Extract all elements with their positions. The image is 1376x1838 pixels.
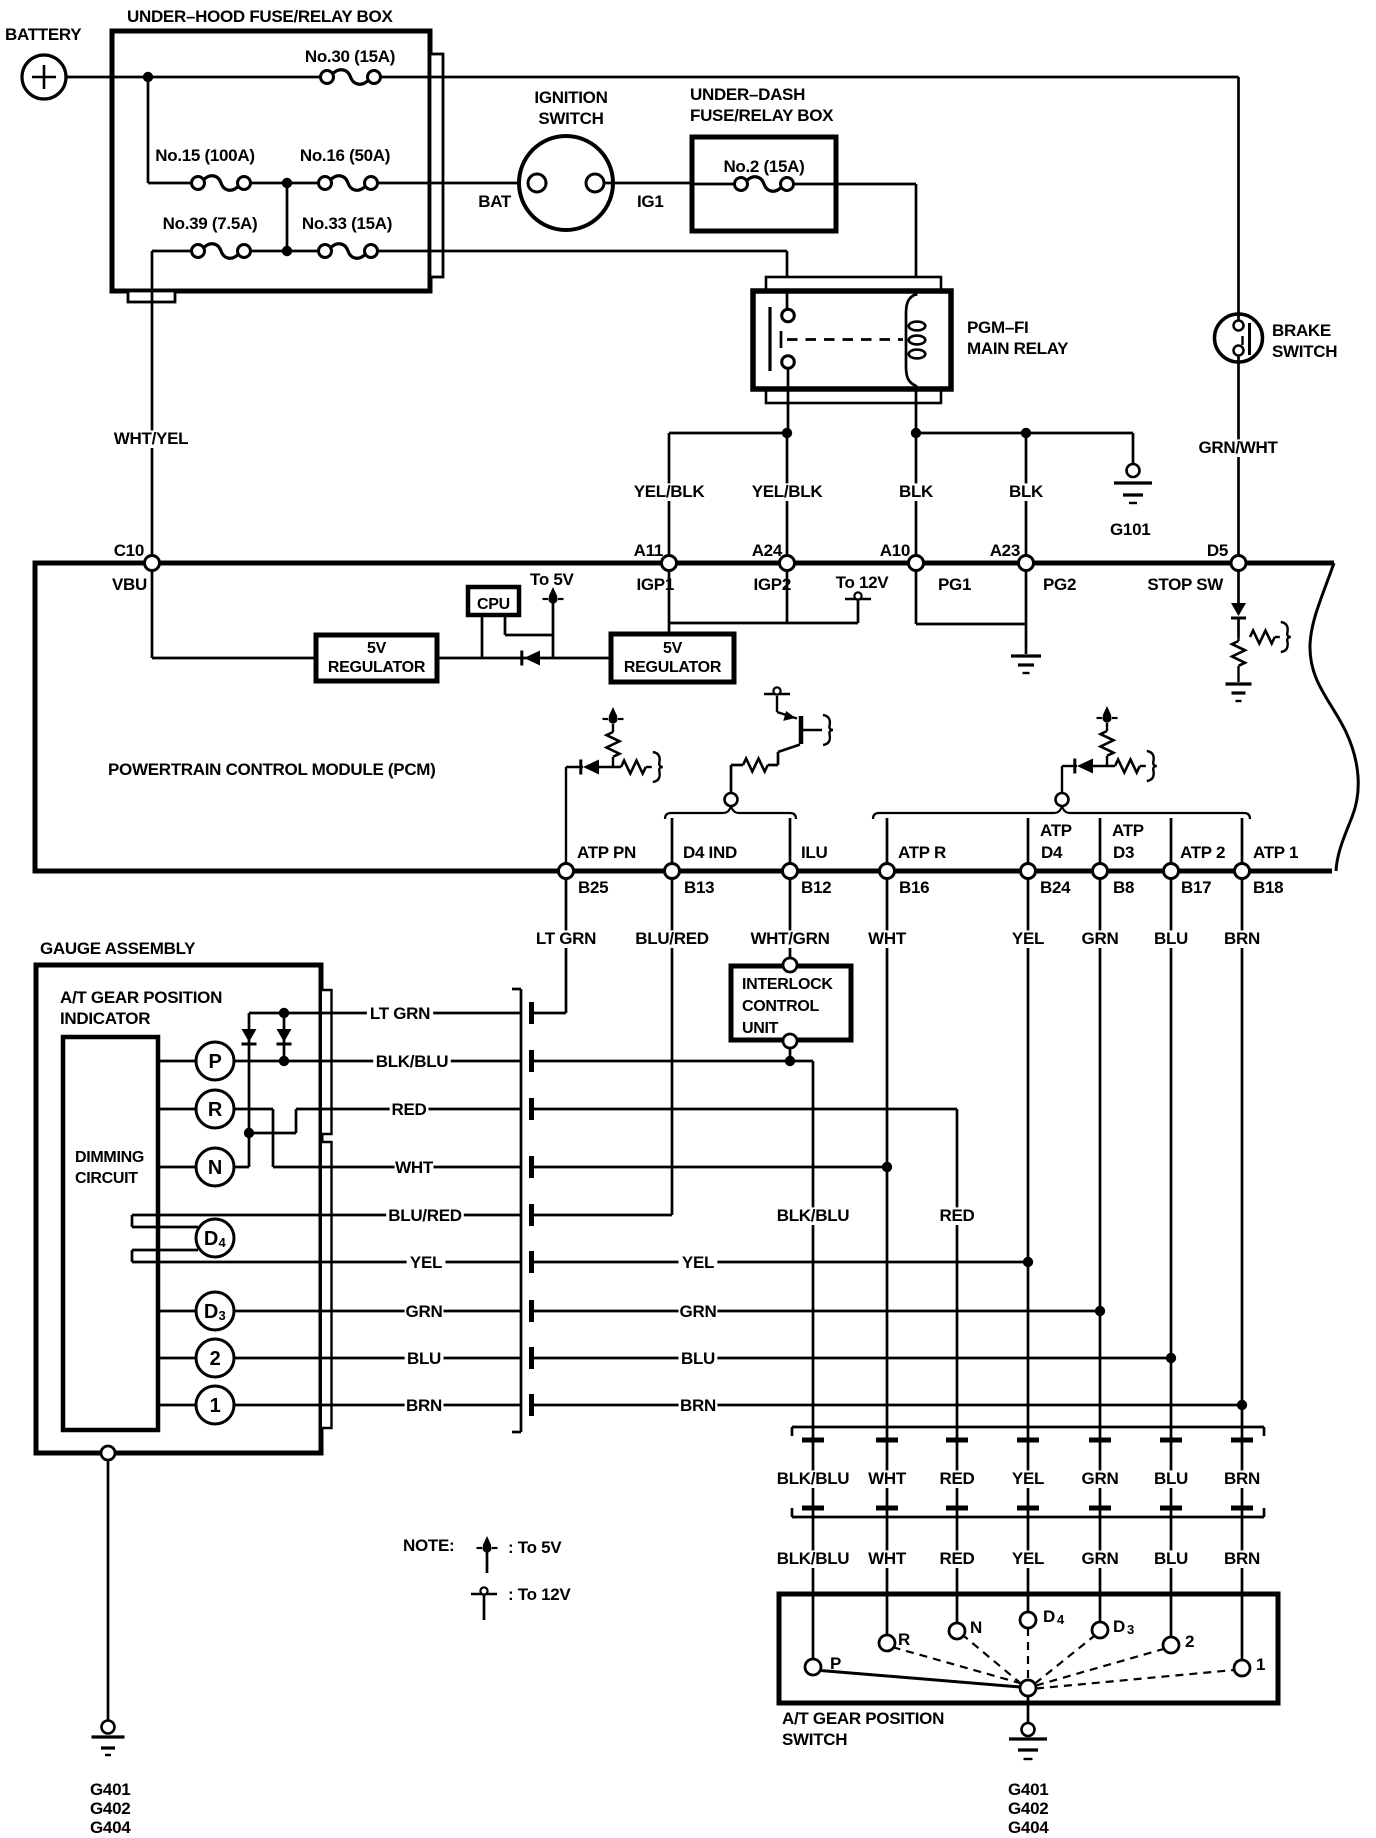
- svg-text:GRN/WHT: GRN/WHT: [1198, 438, 1278, 457]
- legend symbol To 12V: [471, 1593, 497, 1595]
- node No.33 feed junction: [282, 246, 292, 256]
- wire RED down to lower connector: [956, 1109, 959, 1623]
- svg-text:INDICATOR: INDICATOR: [60, 1009, 150, 1028]
- svg-text:5V: 5V: [663, 640, 683, 657]
- svg-text:REGULATOR: REGULATOR: [624, 659, 722, 676]
- wire BRN row (1): [158, 1404, 521, 1407]
- wire PG rail: [916, 623, 1026, 626]
- wire B24 stub to brace: [1027, 818, 1030, 864]
- indicator lamp P: [196, 1042, 234, 1080]
- svg-text:BLK: BLK: [899, 482, 934, 501]
- wire fuse box to ignition switch BAT: [443, 182, 528, 185]
- svg-text:G402: G402: [90, 1799, 130, 1818]
- svg-text:GRN: GRN: [1082, 929, 1119, 948]
- wire RED run: [534, 1108, 957, 1111]
- svg-text:1: 1: [1256, 1655, 1265, 1674]
- svg-text:WHT: WHT: [868, 929, 907, 948]
- svg-text:SWITCH: SWITCH: [538, 109, 603, 128]
- svg-text:BRN: BRN: [1224, 1469, 1260, 1488]
- inline connector C2 upper terminal: [876, 1438, 898, 1443]
- diode D2 (P column): [277, 1029, 292, 1042]
- node battery feed junction: [143, 72, 153, 82]
- pin A10: [909, 556, 924, 571]
- wire C10 to 5V regulator 1: [151, 570, 154, 658]
- inline connector C2 upper terminal: [1231, 1438, 1253, 1443]
- wire LT GRN B25 down: [565, 879, 568, 1014]
- node GRN to B8 junction: [1095, 1306, 1105, 1316]
- svg-text:IGNITION: IGNITION: [534, 88, 607, 107]
- svg-text:BLU/RED: BLU/RED: [388, 1206, 461, 1225]
- svg-text:2: 2: [210, 1348, 221, 1370]
- svg-text:BLK: BLK: [1009, 482, 1044, 501]
- resistor R5 to internal circuit: [1250, 631, 1275, 644]
- relay contact pin bottom: [782, 356, 795, 369]
- svg-text:DIMMING: DIMMING: [75, 1149, 144, 1166]
- wire PG2 drop inside PCM: [1025, 570, 1028, 624]
- svg-text:R: R: [208, 1099, 223, 1121]
- label wire color RED: [938, 1550, 977, 1568]
- svg-text:CIRCUIT: CIRCUIT: [75, 1170, 138, 1187]
- inline connector C1 terminal: [529, 1098, 534, 1120]
- svg-text:BLU: BLU: [1154, 1469, 1188, 1488]
- svg-text:G101: G101: [1110, 520, 1150, 539]
- svg-text:GRN: GRN: [1082, 1549, 1119, 1568]
- svg-text:BLU: BLU: [1154, 929, 1188, 948]
- fuse No.39 (7.5A): [192, 245, 205, 258]
- svg-text:G404: G404: [90, 1818, 131, 1837]
- dashed link common to 1: [1036, 1670, 1234, 1689]
- svg-text:BLK/BLU: BLK/BLU: [777, 1549, 850, 1568]
- relay moving contact blade: [780, 331, 783, 348]
- dashed link common to N: [965, 1637, 1022, 1685]
- node coil to A10 junction: [911, 428, 921, 438]
- ground G401 G402 G404 (gauge): [102, 1721, 115, 1734]
- svg-text:FUSE/RELAY BOX: FUSE/RELAY BOX: [690, 106, 834, 125]
- wire driver output to base resistor: [730, 765, 733, 793]
- svg-text:D: D: [1043, 1607, 1055, 1626]
- label wire color BRN: [1223, 1550, 1262, 1568]
- svg-text:ATP PN: ATP PN: [577, 843, 636, 862]
- wire GRN/WHT brake switch to D5: [1237, 362, 1240, 556]
- svg-text:: To 5V: : To 5V: [508, 1538, 562, 1557]
- label wire color BLU: [1152, 1550, 1191, 1568]
- svg-text:BLU: BLU: [1154, 1549, 1188, 1568]
- wire IG1 to under-dash fuse box: [604, 182, 692, 185]
- indicator lamp D4: [196, 1219, 234, 1257]
- wire brake switch internal stubs: [1237, 312, 1240, 322]
- wire No.33 row to PGM-FI relay: [443, 250, 787, 253]
- contact N: [949, 1623, 965, 1639]
- svg-text:VBU: VBU: [112, 575, 147, 594]
- node driver output circle: [725, 793, 738, 806]
- fuse No.2 (15A): [735, 178, 748, 191]
- ground G401 G402 G404 (switch): [1022, 1723, 1035, 1736]
- wire GRN through connector C2: [1081, 1470, 1120, 1488]
- label wire color WHT: [868, 1550, 907, 1568]
- fuse No.33 (15A): [319, 245, 332, 258]
- svg-text:No.16 (50A): No.16 (50A): [300, 146, 390, 165]
- wire fuse row No.30: [112, 76, 320, 79]
- label wire color BLK/BLU: [774, 1550, 852, 1568]
- pin B25: [559, 864, 574, 879]
- inline connector C1 bracket: [520, 989, 523, 1432]
- wire BLU B17 down: [1170, 879, 1173, 1638]
- svg-text:BRN: BRN: [406, 1396, 442, 1415]
- wire transistor collector: [802, 729, 822, 731]
- contact 2: [1163, 1637, 1179, 1653]
- wire YEL row (D4 bottom): [132, 1261, 521, 1264]
- node interlock to BLK/BLU junction: [785, 1056, 795, 1066]
- PCM top edge: [33, 561, 1335, 566]
- inline connector C2 upper terminal: [946, 1438, 968, 1443]
- PGM-FI main relay bottom tab: [766, 389, 941, 403]
- wire interlock bottom to BLK/BLU row: [789, 1048, 792, 1061]
- inline connector C2 lower terminal: [876, 1506, 898, 1511]
- svg-text:WHT: WHT: [868, 1549, 907, 1568]
- under-hood box bottom connector tab: [128, 291, 175, 302]
- pin B16: [880, 864, 895, 879]
- svg-text:3: 3: [1127, 1622, 1134, 1637]
- fuse No.15 (100A): [192, 177, 205, 190]
- pin B17: [1164, 864, 1179, 879]
- wire GRN run: [534, 1310, 1100, 1313]
- svg-text:CONTROL: CONTROL: [742, 998, 820, 1015]
- inline connector C2 upper terminal: [1017, 1438, 1039, 1443]
- svg-text:BRAKE: BRAKE: [1272, 321, 1331, 340]
- inline connector C2 upper terminal: [1160, 1438, 1182, 1443]
- svg-text:PG2: PG2: [1043, 575, 1076, 594]
- svg-text:LT GRN: LT GRN: [370, 1004, 430, 1023]
- pin B8: [1093, 864, 1108, 879]
- wire BLU row (2): [158, 1357, 521, 1360]
- svg-text:G401: G401: [1008, 1780, 1048, 1799]
- wire LT GRN connector to B25 column: [534, 1012, 566, 1015]
- svg-text:ILU: ILU: [801, 843, 828, 862]
- wire B8 stub to brace: [1099, 818, 1102, 864]
- svg-text:UNIT: UNIT: [742, 1020, 779, 1037]
- wire GRN row (D3): [158, 1310, 521, 1313]
- contact R: [879, 1635, 895, 1651]
- PCM bottom edge: [33, 869, 1333, 874]
- wire YEL B24 down: [1027, 879, 1030, 1613]
- wire relay contact bottom to junction A24 rail: [787, 368, 790, 433]
- brake switch blade: [1248, 323, 1251, 355]
- svg-text:BRN: BRN: [680, 1396, 716, 1415]
- wire BLK/BLU row (P): [158, 1060, 521, 1063]
- wire battery to under-hood fuse box: [66, 76, 112, 79]
- inline connector C1 terminal: [529, 1251, 534, 1273]
- node A23 junction: [1021, 428, 1031, 438]
- svg-text:N: N: [208, 1157, 222, 1179]
- svg-text:A/T GEAR POSITION: A/T GEAR POSITION: [60, 988, 222, 1007]
- svg-text:B17: B17: [1181, 878, 1211, 897]
- dashed link common to D3: [1035, 1637, 1094, 1684]
- svg-text:D: D: [204, 1301, 218, 1323]
- inline connector C2 lower terminal: [1017, 1506, 1039, 1511]
- svg-text:No.30 (15A): No.30 (15A): [305, 47, 395, 66]
- gauge assembly box: [36, 965, 321, 1453]
- svg-text:WHT: WHT: [868, 1469, 907, 1488]
- wire WHT/YEL No.39 down to PCM C10: [151, 251, 154, 556]
- dashed link common to 2: [1036, 1649, 1164, 1686]
- dashed link common to D4: [1027, 1628, 1029, 1680]
- wire WHT through connector C2: [868, 1470, 907, 1488]
- PGM-FI main relay: [753, 291, 951, 389]
- PCM torn right edge: [1310, 563, 1358, 871]
- node N jog junction: [244, 1128, 254, 1138]
- svg-text:No.39 (7.5A): No.39 (7.5A): [163, 214, 258, 233]
- pin D5: [1231, 556, 1246, 571]
- svg-text:ATP R: ATP R: [898, 843, 946, 862]
- wire YEL through connector C2: [1009, 1470, 1048, 1488]
- pin B12: [783, 864, 798, 879]
- svg-text:YEL: YEL: [1012, 1469, 1044, 1488]
- inline connector C2 upper terminal: [802, 1438, 824, 1443]
- A/T gear position switch box: [779, 1594, 1278, 1703]
- inline connector C2 lower terminal: [1160, 1506, 1182, 1511]
- svg-text:B25: B25: [578, 878, 608, 897]
- node relay contact to A24 junction: [782, 428, 792, 438]
- wire rail A10-A23-G101 (BLK): [916, 432, 1133, 435]
- node YEL to B24 junction: [1023, 1257, 1033, 1267]
- wire A24 drop: [786, 433, 789, 556]
- svg-text:G401: G401: [90, 1780, 130, 1799]
- wire WHT run: [534, 1166, 887, 1169]
- svg-text:INTERLOCK: INTERLOCK: [742, 976, 833, 993]
- indicator lamp 1: [196, 1386, 234, 1424]
- svg-text:NOTE:: NOTE:: [403, 1536, 454, 1555]
- svg-text:STOP SW: STOP SW: [1147, 575, 1224, 594]
- svg-text:BLK/BLU: BLK/BLU: [376, 1052, 449, 1071]
- inline connector C2 lower terminal: [802, 1506, 824, 1511]
- wire B18 stub to brace: [1241, 818, 1244, 864]
- pin A24: [780, 556, 795, 571]
- D4 lower fork tab: [131, 1250, 134, 1262]
- PCM left edge: [33, 561, 38, 874]
- node WHT to B16 junction: [882, 1162, 892, 1172]
- svg-text:WHT/YEL: WHT/YEL: [114, 429, 188, 448]
- node P row diode junction: [279, 1056, 289, 1066]
- wire RED row (R): [158, 1108, 273, 1111]
- svg-text:BLU: BLU: [407, 1349, 441, 1368]
- wire IGP1 drop inside PCM: [668, 570, 671, 634]
- inline connector C1 terminal: [529, 1050, 534, 1072]
- svg-text:UNDER–HOOD FUSE/RELAY BOX: UNDER–HOOD FUSE/RELAY BOX: [127, 7, 393, 26]
- svg-text:GRN: GRN: [680, 1302, 717, 1321]
- svg-text:BLU: BLU: [681, 1349, 715, 1368]
- under-dash fuse/relay box: [692, 137, 836, 231]
- node BLU to B17 junction: [1166, 1353, 1176, 1363]
- wire No.30 row to brake switch column: [443, 76, 1239, 79]
- contact 1: [1234, 1660, 1250, 1676]
- inline connector C1 terminal: [529, 1300, 534, 1322]
- wire BRN through connector C2: [1223, 1470, 1262, 1488]
- wire R jog down: [272, 1109, 275, 1167]
- wire No.33 to right tab: [378, 250, 443, 253]
- pin B24: [1021, 864, 1036, 879]
- wire No.16 to right tab: [378, 182, 443, 185]
- svg-text:G404: G404: [1008, 1818, 1049, 1837]
- svg-text:IGP2: IGP2: [753, 575, 791, 594]
- wire brake switch column top: [1237, 77, 1240, 314]
- pin B13: [665, 864, 680, 879]
- svg-text:UNDER–DASH: UNDER–DASH: [690, 85, 805, 104]
- svg-text:RED: RED: [392, 1100, 427, 1119]
- wire rail A11-A24 (YEL/BLK): [669, 432, 787, 435]
- svg-text:D4: D4: [1041, 843, 1063, 862]
- wire under-dash box to relay coil: [836, 183, 916, 186]
- wire BLU through connector C2: [1152, 1470, 1191, 1488]
- inline connector C1 terminal: [529, 1002, 534, 1024]
- svg-text:D3: D3: [1113, 843, 1134, 862]
- wire PG1 drop inside PCM: [915, 570, 918, 624]
- svg-text:D: D: [204, 1228, 218, 1250]
- wire inside under-dash box: [692, 183, 736, 186]
- svg-text:5V: 5V: [367, 640, 387, 657]
- wire relay coil bottom to junction A10 rail: [915, 385, 918, 433]
- transistor Q1 (PNP indicator driver): [799, 716, 804, 744]
- svg-text:GRN: GRN: [406, 1302, 443, 1321]
- wire CPU left stub: [481, 615, 484, 658]
- gauge box right connector tab lower: [322, 1142, 332, 1428]
- inline connector C2 upper bracket: [792, 1426, 1264, 1429]
- wire WHT/GRN B12 down to interlock unit: [789, 879, 792, 960]
- svg-text:4: 4: [219, 1235, 227, 1250]
- pullup network for ATP inputs: [873, 806, 1250, 819]
- wire To-5V drop: [552, 602, 555, 658]
- svg-text:B13: B13: [684, 878, 714, 897]
- svg-text:RED: RED: [940, 1206, 975, 1225]
- gauge ground pin: [101, 1446, 115, 1460]
- diode D1 (N column): [242, 1029, 257, 1042]
- svg-text:BAT: BAT: [478, 192, 512, 211]
- svg-text:BLK/BLU: BLK/BLU: [777, 1469, 850, 1488]
- inline connector C2 lower terminal: [946, 1506, 968, 1511]
- inline connector C1 terminal: [529, 1204, 534, 1226]
- wire No.39 row corner: [152, 250, 192, 253]
- ground PG internal: [1011, 654, 1041, 657]
- legend symbol To 5V: [486, 1551, 489, 1573]
- wire A10 drop: [915, 433, 918, 556]
- label wire color YEL: [1009, 1550, 1048, 1568]
- diode D3 on regulator line: [520, 651, 523, 666]
- svg-text:CPU: CPU: [477, 596, 510, 613]
- relay contact pin top: [782, 309, 795, 322]
- wire BLK/BLU run: [534, 1060, 813, 1063]
- wire PG rail to ground: [1025, 624, 1028, 654]
- svg-text:A11: A11: [634, 541, 663, 560]
- wire diode 2 column: [283, 1013, 286, 1061]
- svg-text:3: 3: [219, 1308, 226, 1323]
- wire diode to node: [1237, 618, 1240, 637]
- pin interlock top: [783, 958, 797, 972]
- relay fixed contact bar: [768, 307, 771, 371]
- wire No.30 fuse to right tab: [381, 76, 443, 79]
- ground G101: [1127, 464, 1140, 477]
- pin B18: [1235, 864, 1250, 879]
- resistor R6 pulldown: [1237, 637, 1239, 641]
- node No.16 feed junction: [282, 178, 292, 188]
- svg-text:G402: G402: [1008, 1799, 1048, 1818]
- wire battery branch down to No.15 row: [147, 77, 150, 183]
- svg-text:YEL: YEL: [682, 1253, 714, 1272]
- wire RED through connector C2: [938, 1470, 977, 1488]
- gauge box right connector tab upper: [322, 990, 332, 1134]
- label wire color GRN: [1081, 1550, 1120, 1568]
- svg-text:B12: B12: [801, 878, 831, 897]
- svg-text:YEL: YEL: [1012, 929, 1044, 948]
- relay coil: [906, 294, 916, 386]
- wire BLU/RED row (D4 top): [132, 1214, 521, 1217]
- symbol To 5V (CPU supply): [543, 598, 549, 600]
- under-hood fuse/relay box: [112, 31, 430, 291]
- wire No.39 to junction: [250, 250, 318, 253]
- ignition switch SW1: [519, 136, 613, 230]
- inline connector C1 terminal: [529, 1394, 534, 1416]
- wire base resistor to transistor: [768, 764, 778, 767]
- diode D4 on STOP SW input: [1231, 603, 1246, 616]
- wire B12 stub to brace: [789, 818, 792, 864]
- svg-text:WHT/GRN: WHT/GRN: [750, 929, 829, 948]
- D4 upper fork tab: [131, 1215, 134, 1227]
- wire N jog to RED row: [249, 1132, 296, 1135]
- fuse No.30 (15A): [321, 71, 334, 84]
- svg-text:IGP1: IGP1: [636, 575, 674, 594]
- wire A23 drop: [1025, 433, 1028, 556]
- svg-text:C10: C10: [114, 541, 144, 560]
- svg-text:YEL/BLK: YEL/BLK: [634, 482, 706, 501]
- svg-text:BRN: BRN: [1224, 929, 1260, 948]
- svg-text:GRN: GRN: [1082, 1469, 1119, 1488]
- brace D4 IND / ILU driver: [665, 806, 796, 819]
- svg-text:B8: B8: [1113, 878, 1134, 897]
- svg-text:D4 IND: D4 IND: [683, 843, 737, 862]
- svg-text:To 12V: To 12V: [836, 573, 890, 592]
- svg-text:A/T GEAR POSITION: A/T GEAR POSITION: [782, 1709, 944, 1728]
- wire No.2 fuse to box edge: [793, 183, 836, 186]
- svg-text:BATTERY: BATTERY: [5, 25, 82, 44]
- wire B17 stub to brace: [1170, 818, 1173, 864]
- wire BLK/BLU through connector C2: [774, 1470, 852, 1488]
- inline connector C1 terminal: [529, 1347, 534, 1369]
- wire resistor to ground: [1237, 666, 1239, 682]
- common contact: [1020, 1680, 1036, 1696]
- svg-text:B16: B16: [899, 878, 929, 897]
- svg-text:D5: D5: [1207, 541, 1228, 560]
- wire D5 drop inside PCM: [1237, 570, 1240, 604]
- wire B13 stub to brace: [671, 818, 674, 864]
- wire BLU/RED run: [534, 1214, 672, 1217]
- inline connector C1 terminal: [529, 1156, 534, 1178]
- fuse No.16 (50A): [319, 177, 332, 190]
- svg-text:A24: A24: [752, 541, 783, 560]
- wire BLU/RED B13 down: [671, 879, 674, 1216]
- wire WHT B16 down: [886, 879, 889, 1636]
- PGM-FI main relay top tab: [766, 277, 941, 291]
- contact D4: [1020, 1612, 1036, 1628]
- resistor R2 base resistor: [743, 759, 768, 772]
- inline connector C2 lower terminal: [1089, 1506, 1111, 1511]
- svg-text:YEL: YEL: [1012, 1549, 1044, 1568]
- svg-text:LT GRN: LT GRN: [536, 929, 596, 948]
- indicator lamp 2: [196, 1339, 234, 1377]
- wire IGP rail: [669, 622, 858, 625]
- wire 5V regulator 1 to 5V regulator 2: [437, 657, 611, 660]
- inline connector C2 lower bracket: [792, 1516, 1264, 1519]
- symbol To 12V transistor emitter supply: [764, 693, 790, 695]
- svg-text:N: N: [970, 1618, 982, 1637]
- 5V regulator U4: [611, 634, 734, 682]
